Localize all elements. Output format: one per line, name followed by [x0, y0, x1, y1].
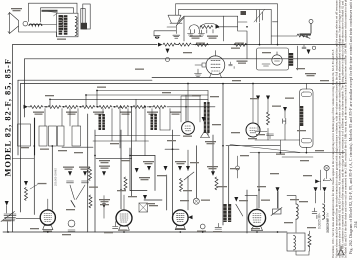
value label [89, 187, 98, 188]
antenna coil box outer [83, 4, 90, 29]
tube V2 envelope [182, 122, 195, 135]
value label [231, 48, 240, 49]
value label [157, 175, 166, 176]
ant funnel coil [168, 15, 182, 23]
if transformer comb 3 [204, 102, 206, 133]
aux circle [236, 166, 240, 170]
resistor RB [48, 106, 61, 109]
avc drop 1 [96, 91, 98, 107]
bus 4 [21, 83, 346, 85]
rect tube internals [274, 52, 280, 61]
wire top right outer [176, 4, 278, 22]
tube VB envelope [116, 210, 132, 226]
tube VC arrow [188, 215, 192, 219]
tube V1 grids [211, 61, 220, 71]
line y149 [165, 148, 179, 150]
ant ground T2 [154, 35, 160, 38]
value label [167, 140, 176, 141]
left vertical 3b [20, 84, 22, 213]
wire top inner loop [41, 8, 74, 22]
resistor on bus R-bus [163, 43, 176, 46]
value label [162, 92, 171, 93]
value label [99, 160, 110, 163]
left vol arrow [24, 181, 28, 186]
osc wire to gang [220, 22, 260, 59]
tube VC envelope [173, 210, 189, 226]
tube V3 label [248, 138, 257, 139]
vertical x259 [258, 153, 260, 208]
triangle sym near V2 [201, 131, 210, 138]
cap K1 [312, 208, 319, 219]
cap under arrow a [67, 181, 74, 183]
bus 3 left [18, 79, 152, 81]
vertical x150 [154, 156, 156, 191]
osc feedback loop [189, 23, 219, 29]
grid arrow a [68, 171, 72, 176]
svg-text:MODEL 82, 82-F, 85, 85-F: MODEL 82, 82-F, 85, 85-F [3, 58, 12, 176]
tube VD label [251, 228, 260, 229]
switch arrow [234, 197, 238, 202]
row label 4 [120, 112, 131, 115]
tube VA internals [44, 214, 52, 222]
ant dots [156, 37, 159, 39]
rectifier tube V5 [272, 55, 282, 65]
value label [210, 96, 219, 97]
resistor RG [133, 106, 146, 109]
bus B+ top [13, 44, 346, 46]
value label [183, 190, 192, 191]
osc grid arrow [186, 166, 190, 171]
tube V3 envelope [246, 123, 260, 137]
if coil comb 2a [151, 114, 154, 130]
vertical x186 [185, 107, 187, 121]
if coil comb 1b [99, 114, 105, 130]
det box oval top [301, 92, 311, 97]
left vertical 4 [33, 118, 35, 215]
grid arrow d [147, 166, 151, 171]
lamp resistor [297, 34, 310, 37]
rf drop wires [13, 109, 181, 159]
det box comb [300, 106, 303, 126]
value label [256, 134, 265, 135]
power winding comb [289, 53, 293, 66]
filter coil right [296, 204, 298, 219]
thermal label [66, 209, 75, 210]
tube V1 legs [210, 73, 222, 78]
arrow below bus [166, 49, 170, 54]
tube VD envelope [248, 209, 265, 226]
vert resistor 3 [124, 177, 127, 190]
vertical x95 [94, 130, 96, 232]
value label [205, 141, 216, 144]
lamp lead [310, 23, 312, 33]
connector y190.5 [130, 190, 147, 192]
tuning gang plates [257, 10, 263, 22]
if coil comb 2b [151, 114, 157, 130]
tube V3 grids [250, 128, 256, 133]
rf horizontal joints [13, 130, 181, 159]
arrow p2 [314, 187, 318, 192]
osc arrow [216, 25, 220, 29]
if coil comb 1a [99, 114, 102, 130]
if transformer comb 3b [204, 102, 210, 133]
det box oval bottom [301, 138, 311, 143]
coil box 3 [49, 126, 57, 146]
antenna coil box inner [81, 9, 85, 25]
osc padder ticks [195, 30, 214, 34]
value label [290, 199, 299, 200]
value label [62, 234, 71, 235]
value label [212, 124, 221, 125]
line y158 [96, 157, 132, 159]
avc drop 3 [49, 99, 51, 107]
value label [276, 154, 285, 155]
row wire [28, 106, 215, 108]
T1 secondary coil [75, 17, 77, 36]
bus 2 [25, 58, 346, 60]
vertical x196.5 [196, 146, 198, 198]
dial lamp LP1 [309, 19, 313, 23]
lamp stand [323, 171, 331, 181]
value label [180, 200, 189, 201]
speaker SP1 cone [8, 13, 19, 34]
small circle comp [68, 220, 75, 227]
wire coil to transformer [42, 24, 57, 26]
cap label [213, 231, 222, 232]
field coil label pointer [42, 11, 58, 16]
row arrow [24, 105, 28, 109]
ant diagonal to osc [176, 18, 184, 26]
osc pot diag [184, 172, 194, 180]
key circle [193, 198, 199, 204]
arrow above triangle [202, 117, 206, 122]
switch diag [236, 204, 243, 216]
grid arrow c [102, 171, 106, 176]
left frame vertical [12, 45, 14, 232]
resistor label [196, 43, 205, 44]
wire top right inner [179, 9, 272, 44]
switch label [239, 200, 248, 201]
vol pot body [1, 206, 40, 233]
rectifier box [257, 48, 289, 70]
value label [270, 173, 279, 174]
value label [20, 147, 29, 148]
avc line 3 [50, 98, 208, 100]
rect box marks [262, 64, 270, 66]
value label [57, 39, 66, 40]
oscillator box frame [184, 16, 224, 41]
small circle cap [68, 230, 75, 232]
trimmer label OSC [237, 61, 248, 64]
connector y200 [144, 199, 162, 201]
value label [284, 222, 293, 223]
arrow labels [63, 167, 74, 170]
row label 6 [170, 112, 181, 115]
value label [320, 80, 329, 81]
osc label 1 [190, 36, 201, 39]
arrow mid3 [143, 195, 147, 200]
value label [285, 98, 294, 99]
tube VB pedestal [119, 226, 130, 230]
value label [30, 228, 39, 229]
vert resistor 1 [89, 168, 92, 181]
detector box [300, 89, 313, 147]
row label 1 [33, 112, 44, 115]
vol pointer [30, 185, 38, 190]
value label [110, 143, 119, 144]
det cap [283, 118, 286, 124]
osc pot lead [187, 150, 189, 210]
pot label [261, 200, 270, 201]
vert resistor 5 [215, 177, 218, 190]
tube VB label [118, 230, 127, 231]
cap bottom mid [215, 223, 222, 229]
lamp wire 2 [309, 23, 311, 35]
value label [183, 52, 192, 53]
cap under arrow b [82, 181, 89, 183]
value label [231, 132, 240, 133]
resistor RC [65, 106, 78, 109]
value label [207, 166, 218, 169]
coil box 2 [39, 126, 47, 146]
tube VC internals [177, 214, 185, 222]
vertical x228.7 [228, 146, 230, 204]
osc ground 2 [199, 30, 205, 37]
tube V2 label [183, 136, 192, 137]
key label [201, 200, 210, 201]
ant ground bars [173, 35, 180, 38]
left vertical 3 [17, 80, 19, 155]
det wires horizontal [250, 131, 345, 157]
svg-text:250,000 OHMS: 250,000 OHMS [54, 168, 58, 186]
osc label 2 [207, 36, 218, 39]
ground bars under grid box [195, 69, 202, 77]
vertical x278 [277, 191, 279, 208]
long pointer diagonal [230, 145, 300, 153]
arrow mid2 [164, 166, 168, 171]
avc right verticals [136, 91, 208, 136]
speaker voice-coil circle [23, 21, 28, 26]
row label 3 [93, 112, 104, 115]
T1 primary winding 1 [59, 15, 64, 30]
tone switch circle [312, 46, 315, 49]
osc resistor R2 [200, 26, 213, 29]
arrow mid1 [135, 168, 139, 173]
value label [99, 199, 110, 202]
svg-text:0.0005 MF: 0.0005 MF [318, 214, 322, 229]
vol label [38, 183, 47, 184]
value label [79, 167, 90, 170]
tube VC pedestal [175, 226, 185, 230]
resistor RH [153, 106, 166, 109]
resistor on bus R-bus2 [179, 43, 192, 46]
grid arrow e [178, 166, 182, 171]
det cap arrow [283, 107, 287, 112]
tone cap [302, 45, 308, 52]
tone control pointer [300, 35, 310, 39]
pilot circle [200, 224, 205, 229]
arrow on bus [158, 43, 162, 47]
vol pot right [271, 208, 282, 216]
grid wire [195, 64, 202, 66]
value label [305, 73, 316, 76]
transformer box bottom [287, 233, 305, 251]
vertical x121 [120, 130, 122, 209]
value label [303, 175, 312, 176]
extra labels [139, 177, 150, 180]
grid arrow b [83, 171, 87, 176]
vertical x52.3 [51, 146, 53, 210]
value label [257, 186, 266, 187]
resistor on bus1 right [234, 43, 247, 46]
vertical x87.7 [87, 114, 89, 232]
field coil label [42, 10, 58, 12]
switch arrow [307, 50, 311, 55]
row junction dots [46, 106, 186, 108]
vertical x131.6 [131, 107, 133, 196]
value label [58, 150, 67, 151]
power lead [297, 46, 299, 70]
antenna coil winding [81, 23, 88, 30]
grid cap box [202, 63, 206, 67]
value label [300, 160, 309, 161]
vert resistor 2 [89, 195, 92, 208]
value label [143, 161, 154, 164]
resistor RE [99, 106, 112, 109]
resistor label [235, 43, 244, 44]
ant wire left [154, 27, 176, 36]
det box lead up [305, 84, 307, 89]
bottom bus wire [3, 231, 287, 233]
coil box 1 [18, 124, 31, 146]
left vol resistor [25, 188, 28, 201]
key x [194, 199, 198, 203]
value label [100, 204, 109, 205]
value label [104, 232, 113, 233]
coil lead [245, 195, 296, 232]
vertical x172.5 [172, 130, 174, 215]
cap tube B left [113, 222, 119, 229]
divider x247 [246, 190, 248, 233]
left vertical 2 [24, 59, 26, 117]
arrow right sym [315, 179, 319, 183]
tube V2 grids [185, 126, 191, 131]
value label [97, 87, 106, 88]
det labels [272, 106, 281, 107]
ant vertical leads [176, 4, 179, 34]
value label [128, 196, 137, 197]
svg-text:8500 OHMS DIV: 8500 OHMS DIV [326, 212, 330, 232]
wire at arrow [320, 170, 321, 190]
value label [190, 162, 199, 163]
resistor on bus1 left of tube [196, 43, 209, 46]
value label [299, 201, 308, 202]
svg-text:254: 254 [353, 221, 358, 228]
tube VA label [43, 231, 52, 232]
tube VD pedestal [252, 226, 263, 230]
rect label [262, 52, 271, 53]
vertical x166.7 [166, 175, 168, 210]
pilot label [197, 231, 206, 232]
value label [230, 168, 239, 169]
value label [250, 98, 259, 99]
arrow p1 [276, 187, 280, 192]
line y141 [93, 140, 149, 142]
vert resistor 4 [180, 179, 183, 192]
value label [121, 160, 130, 161]
coil right2 [323, 204, 325, 219]
value label [45, 95, 54, 96]
value label [117, 190, 126, 191]
vertical x34.7 [34, 118, 36, 155]
line y145.7 [226, 145, 280, 147]
value label [175, 161, 186, 164]
aux circle lead [237, 156, 239, 178]
value label [232, 80, 241, 81]
box coil [294, 236, 296, 250]
grid arrow f [211, 171, 215, 176]
resistor RF [116, 106, 129, 109]
speaker label [11, 8, 22, 11]
gang arrow [254, 10, 265, 23]
value label [240, 155, 249, 156]
lamp feed wire [271, 35, 297, 37]
avc arrow 1 [256, 96, 260, 101]
lamp L2 [324, 165, 329, 170]
avc arrow 2 [266, 96, 270, 101]
row label 2 [66, 112, 77, 115]
bus 3 [152, 77, 292, 79]
value label [74, 152, 83, 153]
crystal x [139, 203, 148, 212]
avc leads [258, 100, 285, 152]
tube VB top lead [123, 195, 125, 210]
value label [307, 227, 316, 228]
tube V3 top lead [252, 84, 254, 124]
value label [315, 150, 324, 151]
avc drop 2 [85, 95, 87, 107]
osc ground 1 [188, 30, 194, 37]
avc line 1 [97, 90, 208, 92]
pot label [2, 220, 11, 221]
tube VC label [176, 228, 185, 229]
trimmer cap mark [229, 62, 234, 68]
resistor RA [30, 106, 43, 109]
T1 primary winding 2 [64, 15, 68, 35]
arrow x104 [102, 204, 106, 209]
osc wire top [179, 16, 247, 22]
tube V1 envelope [206, 56, 225, 75]
coil box 5 [72, 126, 81, 146]
wire lamp branch [273, 22, 278, 45]
tube V1 top lead [214, 51, 216, 56]
vertical x130 [129, 148, 131, 191]
x104 lead [103, 196, 105, 219]
value label [146, 203, 155, 204]
coil box 4 [58, 126, 65, 146]
vol arrow2 [5, 201, 9, 206]
pilot circle below bus [166, 58, 170, 62]
tube VA top lead [47, 199, 49, 210]
choke comb bottom [224, 204, 227, 222]
diode load resistor [267, 112, 270, 125]
tube VA envelope [40, 210, 55, 225]
twin diag wires [70, 185, 85, 200]
tone control label [300, 33, 312, 35]
tube VA pedestal [43, 225, 53, 229]
wire bus joint [176, 44, 196, 46]
lamp X [325, 166, 328, 169]
